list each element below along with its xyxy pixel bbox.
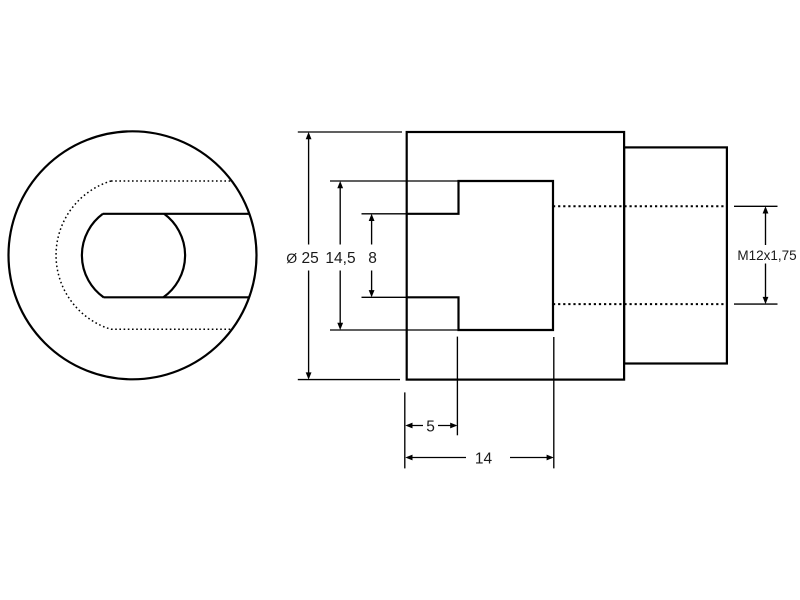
dimension 8: text label — [365, 245, 380, 271]
dimension 14,5: bottom extension line — [330, 329, 459, 331]
dimension 5: right extension line — [456, 337, 458, 436]
dimension 8: bottom extension line — [362, 296, 407, 298]
dimension Ø25: bottom extension line — [298, 379, 400, 381]
dimension 5: left extension line — [404, 392, 406, 468]
dimension M12x1,75: upper extension line — [734, 205, 778, 207]
svg-text:8: 8 — [368, 250, 377, 267]
dimension 14: text label — [466, 450, 510, 468]
side view: thread upper line (dotted) — [553, 205, 727, 207]
dimension 14,5: dimension line with arrows — [337, 181, 343, 330]
side view: threaded boss rectangle — [624, 147, 727, 363]
dimension M12x1,75: text label — [736, 245, 798, 264]
dimension 8: top extension line — [362, 213, 407, 215]
side view: inner slot profile — [407, 181, 553, 330]
svg-text:14,5: 14,5 — [325, 250, 355, 267]
front view: tap drill hole left arc — [82, 214, 104, 297]
front view: hidden slot end arc (dotted) — [56, 181, 111, 329]
dimension 14: right extension line — [553, 337, 555, 468]
dimension 5: text label — [423, 418, 438, 436]
front view: slot top edge line — [103, 213, 250, 215]
dimension 14,5: text label — [325, 245, 356, 271]
front view: outer circle of body Ø25 — [9, 131, 257, 379]
svg-text:Ø 25: Ø 25 — [286, 250, 318, 267]
front view: tap drill hole right arc — [163, 214, 185, 297]
front view: hidden slot top edge (dotted) — [111, 180, 232, 182]
dimension 14: dimension line with arrows — [405, 455, 554, 461]
dimension Ø25: top extension line — [298, 131, 402, 133]
dimension M12x1,75: dimension line with arrows — [763, 206, 769, 304]
svg-text:5: 5 — [426, 419, 435, 436]
dimension 5: dimension line with arrows — [405, 423, 457, 429]
svg-text:M12x1,75: M12x1,75 — [737, 248, 796, 263]
svg-text:14: 14 — [475, 451, 493, 468]
front view: hidden slot bottom edge (dotted) — [111, 328, 232, 330]
side view: body outline rectangle — [407, 132, 624, 380]
dimension Ø25: dimension line with arrows — [306, 132, 312, 380]
side view: thread lower line (dotted) — [553, 303, 727, 305]
dimension 14,5: top extension line — [330, 180, 459, 182]
dimension M12x1,75: lower extension line — [734, 303, 778, 305]
dimension Ø25: text label — [286, 245, 319, 271]
front view: slot bottom edge line — [104, 296, 250, 298]
dimension 8: dimension line with arrows — [369, 214, 375, 297]
